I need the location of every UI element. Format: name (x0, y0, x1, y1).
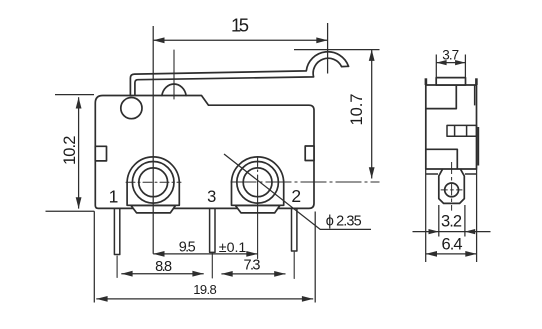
arrow 9.5 left (153, 251, 164, 257)
pin 1 (114, 208, 119, 254)
side corner stub left (425, 78, 428, 85)
pin 2 (292, 208, 297, 251)
dim 15 extension left (rivet1 centerline, long) (152, 26, 154, 254)
dim 15 extension right (curl centerline) (327, 23, 329, 74)
arrow 3.2 left (outside pointing right) (429, 229, 439, 234)
dim 10.2 bottom extension (46, 210, 95, 212)
arrow 6.4 left (426, 251, 437, 257)
arrow 8.8 left (121, 271, 132, 277)
svg-text:3: 3 (207, 188, 216, 206)
arrow 10.7 top (369, 50, 375, 61)
arrow 19.8 left (96, 296, 107, 302)
dim 10.7 line (371, 50, 373, 179)
dim 10.7 bottom extension (rivet2 centerline extended) (231, 181, 380, 183)
svg-text:1: 1 (109, 186, 119, 206)
pin 1 centerline (116, 256, 118, 278)
rivet R2 middle circle (237, 162, 279, 204)
svg-text:10.7: 10.7 (348, 94, 366, 126)
side window divider 2 (466, 125, 468, 136)
svg-text:±0.1: ±0.1 (219, 240, 247, 256)
dim 19.8 right extension (314, 212, 316, 303)
left notch rect (95, 146, 106, 161)
svg-text:8.8: 8.8 (155, 259, 172, 275)
arrow 7.3 left (221, 271, 232, 277)
arrow 15 left (153, 37, 164, 43)
plunger dome (162, 84, 186, 95)
side upper-left inner rect (426, 85, 457, 109)
dim 15 line (153, 39, 327, 41)
side window divider 1 (454, 125, 456, 136)
rivet R1 flange (131, 206, 176, 213)
dim 3.2 ext right (464, 205, 466, 237)
pivot circle (121, 98, 142, 119)
arrow 3.7 left (436, 60, 446, 65)
side bottom tick left (426, 173, 438, 175)
lever lower line with inner curl arc (135, 58, 342, 95)
rivet R1 tombstone (127, 157, 179, 205)
leader phi2.35 (224, 154, 371, 229)
side hole (445, 183, 459, 197)
svg-text:3.2: 3.2 (441, 213, 462, 231)
dim 3.2 ext left (438, 205, 440, 237)
dim 9.5 line (153, 253, 257, 255)
svg-text:15: 15 (231, 15, 249, 36)
arrow 19.8 right (302, 296, 313, 302)
rivet R1 inner circle (139, 168, 168, 197)
side view dimensions (413, 55, 491, 263)
arrow 9.5 right (246, 251, 257, 257)
dim 7.3 line (221, 273, 285, 275)
arrow 10.2 bottom (76, 197, 82, 208)
arrow 10.2 top (76, 97, 82, 108)
dim 3.2 line (413, 231, 491, 233)
rivet R2 tombstone (232, 157, 284, 205)
rivet R2 vertical centerline (257, 158, 259, 259)
rivet R1 horizontal centerline (126, 181, 181, 183)
pin 3 (210, 208, 215, 252)
dim 6.4 line (426, 253, 477, 255)
arrow 7.3 right (274, 271, 285, 277)
svg-text:7.3: 7.3 (244, 258, 261, 274)
side corner stub right (475, 78, 478, 85)
dim 3.7 ext left (435, 55, 437, 78)
side lower-left inner rect (426, 149, 458, 169)
switch body outline (95, 96, 314, 209)
arrow 8.8 right (192, 271, 203, 277)
svg-text:2: 2 (291, 186, 301, 206)
arrow 10.7 bottom (369, 167, 375, 178)
svg-text:ϕ 2.35: ϕ 2.35 (326, 214, 362, 230)
dim 19.8 left extension (93, 211, 95, 302)
pin 3 centerline (211, 253, 213, 278)
dim 3.7 ext right (464, 55, 466, 78)
side right inner line (474, 85, 476, 105)
side hole h centerline (441, 189, 463, 191)
rivet R1 middle circle (132, 162, 174, 204)
arrowheads main view (76, 37, 375, 301)
arrow 3.2 right (outside pointing left) (465, 229, 475, 234)
lever upper line with left hook and curl outer arc (130, 52, 348, 96)
pin 2 centerline (293, 252, 295, 279)
dim 3.7 line (436, 62, 465, 64)
side body (426, 85, 477, 169)
dim 19.8 line (96, 298, 313, 300)
rivet R2 flange (235, 206, 280, 213)
dim 10.7 top extension (294, 49, 380, 51)
rivet R2 inner circle (243, 168, 272, 197)
dimension graphics (46, 23, 380, 303)
dim 6.4 ext right (476, 169, 478, 262)
svg-text:6.4: 6.4 (442, 235, 463, 253)
dimension texts main view (61, 15, 366, 298)
svg-text:10.2: 10.2 (61, 136, 79, 166)
side bracket (439, 169, 465, 203)
arrow 15 right (316, 37, 327, 43)
arrow 3.7 right (455, 60, 465, 65)
dim 6.4 ext left (425, 169, 427, 262)
svg-text:3.7: 3.7 (442, 48, 459, 63)
svg-text:9.5: 9.5 (179, 239, 196, 255)
curl lip cut (342, 65, 349, 67)
side hole v centerline (451, 162, 453, 211)
dim 10.2 line (78, 97, 80, 208)
dim 10.2 top extension (55, 94, 94, 96)
side window rect (447, 125, 477, 136)
dim 8.8 line (121, 273, 203, 275)
svg-text:19.8: 19.8 (193, 282, 216, 297)
side button (436, 78, 465, 85)
dome centerline (173, 50, 175, 99)
side bottom tick right (465, 173, 477, 175)
right notch rect (305, 146, 314, 161)
arrow 6.4 right (465, 251, 476, 257)
side right rib (477, 127, 479, 166)
